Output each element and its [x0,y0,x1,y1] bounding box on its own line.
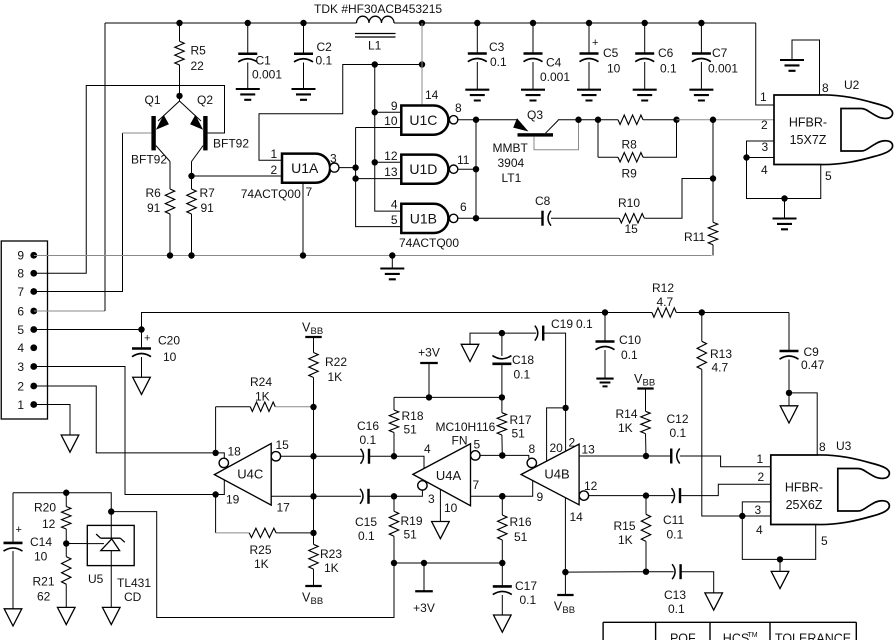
ground under C9 [788,393,790,406]
wire C20 node to R12 rail [142,313,652,330]
svg-text:4: 4 [761,163,768,177]
svg-text:U2: U2 [844,78,860,92]
svg-text:1K: 1K [255,390,270,404]
amplifier U4A (MC10H116 section) [413,444,471,506]
svg-text:3: 3 [17,360,24,374]
svg-text:C3: C3 [489,40,505,54]
wire upper input bus [375,65,401,212]
svg-text:R24: R24 [250,375,272,389]
wire U5 cathode to +3V net [111,512,394,618]
ground at U4A pin10 [439,489,441,521]
resistor R23 [313,533,315,544]
ground under C5 [577,90,601,101]
wire U1A pin7 to ground rail [302,183,304,256]
wire R8 to U2 pin2 [677,119,775,121]
svg-text:L1: L1 [368,39,382,53]
connector pin 7 [30,288,37,295]
svg-text:13: 13 [384,165,398,179]
svg-text:0.1: 0.1 [621,348,638,362]
connector pin 4 [30,344,37,351]
svg-text:BB: BB [562,605,575,616]
wire pin7 to Q1 base [34,133,123,292]
svg-text:R14: R14 [616,407,638,421]
svg-text:3: 3 [428,492,435,506]
fiber optic transmitter U2 HFBR-15X7Z [774,95,893,165]
svg-text:74ACTQ00: 74ACTQ00 [241,187,301,201]
wire R22 node down across outputs [313,407,315,533]
svg-text:2: 2 [761,118,768,132]
svg-text:14: 14 [570,510,584,524]
connector pin 5 [30,326,37,333]
ground at U2 pin8 [780,60,804,71]
node emitter junction Q1 Q2 [176,93,182,99]
svg-text:C9: C9 [804,345,820,359]
svg-text:3: 3 [762,140,769,154]
ground under C10 [596,379,613,387]
svg-text:2: 2 [758,470,765,484]
bubble U4C pin18 [216,453,225,458]
svg-text:HFBR-: HFBR- [789,116,827,130]
bubble U1D output [449,165,457,173]
svg-text:R10: R10 [618,196,640,210]
svg-text:CD: CD [124,590,142,604]
wire U2 pin8 to ground [792,40,820,95]
svg-text:R11: R11 [684,230,705,244]
svg-text:6: 6 [17,304,24,318]
capacitor C8 [476,217,543,219]
ground at U2 pin5 [784,199,786,219]
svg-text:51: 51 [514,530,528,544]
fiber optic receiver U3 HFBR-25X6Z [771,455,890,525]
nand gate U1B [401,204,448,233]
svg-text:19: 19 [226,493,240,507]
svg-text:0.1: 0.1 [490,55,507,69]
svg-text:MMBT: MMBT [493,141,529,155]
svg-text:C12: C12 [667,412,689,426]
bubble U4A pin3 [418,481,427,490]
wire U4C out15 to C16 [281,455,363,457]
ground central rail symbol [389,252,395,258]
svg-text:R25: R25 [250,543,272,557]
svg-text:0.1: 0.1 [667,528,684,542]
svg-text:2: 2 [569,436,576,450]
svg-text:1K: 1K [618,533,633,547]
svg-text:C10: C10 [619,333,641,347]
svg-text:R7: R7 [200,186,216,200]
svg-text:C5: C5 [603,46,619,60]
svg-text:C2: C2 [317,40,333,54]
resistor R6 [169,162,171,190]
svg-text:C20: C20 [158,334,180,348]
svg-text:U1D: U1D [409,161,437,177]
svg-text:R12: R12 [652,281,674,295]
bubble U4B pin12 output [579,491,588,500]
wire Q3 base-collector tie [534,120,579,150]
svg-text:0.1: 0.1 [514,368,531,382]
svg-text:R17: R17 [510,413,532,427]
svg-text:R18: R18 [402,409,424,423]
svg-text:C4: C4 [546,56,562,70]
svg-text:15X7Z: 15X7Z [790,133,827,147]
svg-text:0.1: 0.1 [576,317,593,331]
capacitor C2 [303,23,305,54]
svg-text:+: + [592,37,598,49]
nand gate U1D [401,155,448,184]
ground at U3 pin5 [779,559,781,571]
resistor R24 feedback [216,406,251,408]
wire U1A output to U1C/U1D/U1B inputs [339,167,356,169]
svg-text:C6: C6 [658,46,674,60]
stub U4C pin19 [216,480,225,495]
resistor R5 [179,23,181,41]
wire Q2 collector to U1A pin2 [192,175,283,177]
svg-text:1: 1 [757,452,764,466]
svg-text:BFT92: BFT92 [131,153,167,167]
bubble U1B output [449,214,457,222]
svg-text:U4B: U4B [544,467,569,482]
svg-text:20: 20 [550,441,564,455]
svg-text:5: 5 [821,534,828,548]
wire pin6 to VCC rail [34,310,105,312]
ground under C1 [236,89,260,100]
svg-text:51: 51 [512,427,526,441]
svg-text:5: 5 [825,169,832,183]
svg-text:TM: TM [747,632,757,639]
svg-text:18: 18 [228,445,242,459]
svg-text:1: 1 [17,398,24,412]
svg-text:0.001: 0.001 [540,70,570,84]
svg-text:91: 91 [201,201,215,215]
ground under C20 [133,377,151,394]
svg-text:1K: 1K [254,557,269,571]
capacitor C3 [476,23,478,54]
svg-text:51: 51 [404,423,418,437]
svg-text:3: 3 [755,503,762,517]
svg-text:15: 15 [276,438,290,452]
capacitor C15 [367,489,369,504]
wire VBB pin14 node to C13 [565,571,646,573]
ground under R21 [57,607,75,624]
svg-text:Q1: Q1 [145,93,161,107]
svg-text:7: 7 [473,478,480,492]
svg-text:74ACTQ00: 74ACTQ00 [399,236,459,250]
svg-text:BFT92: BFT92 [213,137,249,151]
ground under C2 [292,89,316,100]
svg-text:4: 4 [424,442,431,456]
connector pin 1 [30,401,37,408]
wire pin1 to ground [34,405,70,436]
svg-text:R15: R15 [614,519,636,533]
capacitor C6 [644,23,646,54]
capacitor C5 polarized [588,23,590,54]
bubble U4B pin8 [527,458,536,467]
resistor R15 [645,496,647,515]
wire U1C pin14 from VCC [421,23,423,105]
svg-text:POF: POF [670,632,696,640]
capacitor C4 [532,23,534,54]
svg-text:25X6Z: 25X6Z [786,498,823,512]
svg-text:0.1: 0.1 [660,62,677,76]
wire pin2 to U4C pin18 [34,386,216,453]
svg-text:10: 10 [34,550,48,564]
svg-text:8: 8 [17,267,24,281]
resistor R18 [393,397,395,410]
wire VCC rail to U2 pin1 [756,23,774,105]
nand gate U1A [282,154,330,183]
wire pin8 to Q2 base [34,86,225,274]
svg-text:5: 5 [17,323,24,337]
svg-text:10: 10 [384,114,398,128]
svg-text:10: 10 [607,62,621,76]
svg-text:14: 14 [425,88,439,102]
svg-text:BB: BB [643,378,656,389]
ground left of C18 [461,344,479,361]
svg-text:1K: 1K [618,421,633,435]
svg-text:5: 5 [391,213,398,227]
svg-text:C7: C7 [712,46,728,60]
svg-text:C11: C11 [663,513,684,527]
svg-text:C14: C14 [30,535,52,549]
svg-text:C16: C16 [357,419,379,433]
resistor R17 [501,397,503,412]
resistor R20 [65,493,67,507]
bubble U1C output [449,116,457,124]
svg-text:Q2: Q2 [197,93,213,107]
VBB supply for R14 [637,387,653,389]
capacitor C13 [679,564,681,579]
resistor R11 [712,120,714,223]
svg-text:12: 12 [384,149,398,163]
svg-text:R6: R6 [146,186,162,200]
svg-text:17: 17 [277,501,291,515]
capacitor C18 [501,333,503,356]
connector pin 3 [30,363,37,370]
wire C9 node to U3 pin8 [789,393,817,455]
svg-text:4.7: 4.7 [657,295,674,309]
svg-text:22: 22 [191,59,205,73]
transistor Q3 MMBT3904 [513,118,528,131]
svg-text:4: 4 [17,341,24,355]
svg-text:91: 91 [147,201,161,215]
bubble U1A output [330,163,339,172]
wire VCC top rail [105,22,357,24]
svg-text:8: 8 [822,81,829,95]
table header bottom right [603,622,856,640]
svg-text:R20: R20 [34,501,56,515]
+3V supply lower [423,563,425,591]
svg-text:FN: FN [452,434,468,448]
resistor R12 [652,308,676,317]
resistor R22 [313,337,315,353]
svg-text:0.1: 0.1 [668,602,685,616]
resistor R21 [65,544,67,557]
wire U5 ref [66,543,106,545]
svg-text:0.47: 0.47 [801,358,825,372]
wire U1 outputs bus [458,119,518,121]
svg-text:TDK #HF30ACB453215: TDK #HF30ACB453215 [314,2,442,16]
capacitor C7 [700,23,702,54]
svg-text:8: 8 [455,101,462,115]
svg-text:4.7: 4.7 [712,361,729,375]
svg-text:HFBR-: HFBR- [785,481,823,495]
svg-text:MC10H116: MC10H116 [436,420,496,434]
svg-text:U5: U5 [88,572,104,586]
svg-text:1: 1 [760,90,767,104]
wire Q3 collector to R8 R9 [558,119,618,121]
VBB below U4B pin14 [557,594,573,596]
svg-text:7: 7 [17,285,24,299]
svg-text:12: 12 [584,479,598,493]
svg-text:R23: R23 [320,547,342,561]
resistor R8 [618,115,643,124]
ground under U5 [102,607,120,624]
svg-text:HCS: HCS [723,632,749,640]
svg-text:U4C: U4C [237,467,263,482]
svg-text:U3: U3 [836,439,852,453]
bubble U4A pin5 output [471,451,480,460]
svg-text:10: 10 [163,350,177,364]
wire U4B pin20 pin2 tie to C19 [547,408,566,461]
ground under C7 [689,90,713,101]
wire U4A pin7 output [471,481,533,497]
wire +3V rail lower [394,562,502,564]
svg-text:C17: C17 [515,579,537,593]
capacitor C11 [679,488,681,503]
svg-text:2: 2 [17,379,24,393]
svg-text:U4A: U4A [436,468,462,483]
node VCC junction dots on rail [176,20,182,26]
VBB supply for R22 [305,336,321,338]
svg-text:0.001: 0.001 [252,68,282,82]
+3V supply upper [420,362,438,364]
svg-text:0.001: 0.001 [708,62,738,76]
ground under C13 [705,593,723,610]
svg-text:10: 10 [444,501,458,515]
capacitor C14 polarized [12,493,14,543]
svg-text:1K: 1K [324,561,339,575]
svg-text:+: + [144,333,150,345]
svg-text:15: 15 [625,222,639,236]
svg-text:C1: C1 [256,54,272,68]
svg-text:+3V: +3V [413,601,435,615]
svg-text:13: 13 [582,443,596,457]
ground under C6 [633,90,657,101]
bubble U4C pin15 output [271,452,280,461]
svg-text:R16: R16 [510,515,532,529]
svg-text:R22: R22 [325,355,347,369]
capacitor C1 [247,23,249,54]
svg-text:C18: C18 [512,353,534,367]
capacitor C20 polarized [141,330,143,349]
svg-text:U1A: U1A [291,160,319,176]
svg-text:62: 62 [37,590,51,604]
connector pin 8 [30,270,37,277]
connector pin 2 [30,383,37,390]
svg-text:0.1: 0.1 [358,529,375,543]
svg-text:9: 9 [391,99,398,113]
wire pin5 to C20 [34,329,142,331]
svg-text:R13: R13 [710,347,732,361]
svg-text:C19: C19 [551,317,573,331]
svg-text:3: 3 [330,152,337,166]
resistor R9 [597,120,599,158]
wire U4C out17 to C15 [271,495,361,497]
svg-text:1: 1 [271,147,278,161]
svg-text:+: + [16,524,22,536]
resistor R16 [499,493,505,499]
svg-text:8: 8 [529,442,536,456]
svg-text:C8: C8 [535,194,551,208]
svg-text:R5: R5 [191,44,207,58]
capacitor C17 [501,563,503,586]
svg-text:LT1: LT1 [502,171,522,185]
connector pin 6 [30,308,37,315]
svg-text:R21: R21 [33,575,55,589]
svg-text:BB: BB [311,596,324,607]
resistor R14 [645,389,647,412]
connector pin 9 [30,252,37,259]
svg-text:0.1: 0.1 [670,426,687,440]
wire U4B pin13 output to C12 [579,455,671,457]
svg-text:+3V: +3V [418,346,440,360]
inductor L1 [357,16,395,23]
wire pin3 to U4C pin19 [34,367,216,495]
wire U3 pin3 pin4 tie [742,502,815,560]
wire U2 pin3 pin4 tie [747,141,821,199]
svg-text:R9: R9 [622,167,638,181]
VBB below R23 [305,585,321,587]
svg-text:C15: C15 [355,515,377,529]
ground under C4 [521,90,545,101]
ground at connector pin1 [61,435,79,452]
capacitor C9 [788,313,790,352]
capacitor C16 [368,449,370,464]
svg-text:5: 5 [474,438,481,452]
resistor R25 feedback [215,495,217,533]
svg-text:12: 12 [42,517,56,531]
svg-text:9: 9 [17,249,24,263]
svg-text:BB: BB [311,326,324,337]
amplifier U4B (MC10H116 section) [521,444,579,505]
svg-text:9: 9 [537,490,544,504]
nand gate U1C [401,106,448,135]
wire U1A pin1 feedback to VCCF node [259,65,422,161]
resistor R19 [391,493,397,499]
capacitor C10 [604,313,606,342]
svg-text:11: 11 [457,153,470,167]
svg-text:U1C: U1C [409,112,437,128]
amplifier U4C (MC10H116 section) [214,444,271,506]
wire +3V to R18 and R17 [394,396,502,398]
wire pin9 ground rail [34,255,712,257]
svg-text:0.1: 0.1 [520,593,537,607]
svg-text:0.1: 0.1 [360,433,377,447]
svg-text:R19: R19 [401,514,423,528]
svg-text:6: 6 [460,200,467,214]
shunt regulator U5 TL431 [87,525,134,565]
svg-text:Q3: Q3 [527,108,543,122]
resistor R13 [701,313,703,342]
connector J1 body [1,241,47,419]
svg-text:TL431: TL431 [117,576,151,590]
capacitor C12 [670,449,672,464]
ground under C3 [465,90,489,101]
capacitor C19 [542,326,544,341]
resistor R7 [191,162,193,190]
svg-text:51: 51 [404,528,418,542]
transistor Q2 BFT92 [180,101,202,121]
svg-text:1K: 1K [328,370,343,384]
